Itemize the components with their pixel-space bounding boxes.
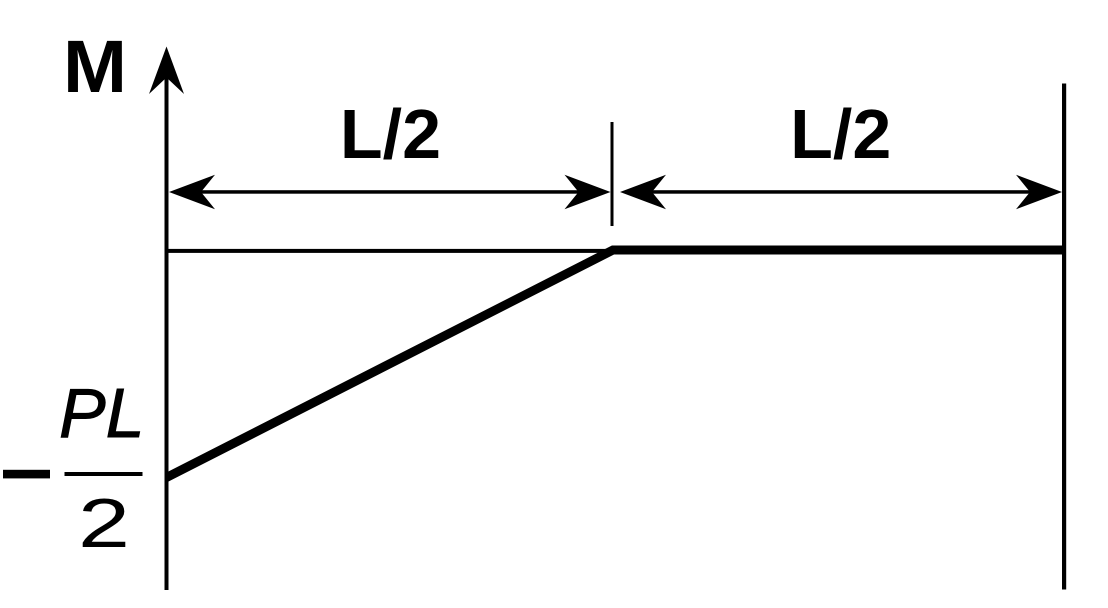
minus sign of -PL/2 [3, 470, 50, 479]
dimension arrowhead left span, left end (points left) [169, 175, 215, 210]
dimension arrowhead left span, right end (points right) [565, 175, 611, 210]
svg-text:M: M [63, 25, 127, 108]
right boundary vertical line [1062, 84, 1066, 590]
fraction bar [65, 472, 143, 476]
svg-text:L/2: L/2 [790, 95, 891, 173]
midspan tick line [611, 122, 614, 226]
svg-text:L/2: L/2 [340, 95, 441, 173]
dimension arrowhead right span, left end (points left) [620, 175, 666, 210]
dimension line left span [176, 190, 604, 194]
moment diagram thick polyline [167, 250, 1065, 478]
dimension line right span [627, 190, 1055, 194]
svg-text:2: 2 [78, 484, 130, 562]
zero baseline (thin) [167, 249, 614, 253]
M axis arrowhead (up) [149, 47, 184, 95]
svg-text:PL: PL [59, 374, 145, 452]
M axis vertical line [165, 60, 169, 590]
dimension arrowhead right span, right end (points right) [1016, 175, 1062, 210]
